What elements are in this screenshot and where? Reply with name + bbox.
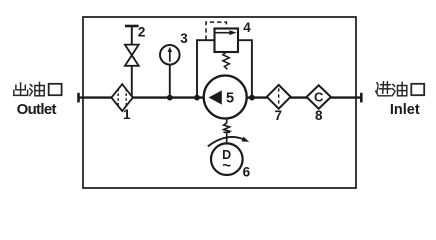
- svg-text:Outlet: Outlet: [17, 101, 57, 118]
- svg-text:~: ~: [222, 158, 231, 175]
- svg-text:1: 1: [123, 107, 131, 122]
- svg-text:7: 7: [275, 108, 283, 123]
- svg-text:6: 6: [243, 164, 251, 179]
- svg-text:4: 4: [243, 20, 251, 35]
- svg-text:5: 5: [226, 91, 234, 107]
- svg-text:Inlet: Inlet: [390, 102, 420, 118]
- svg-text:2: 2: [138, 25, 146, 40]
- svg-text:3: 3: [180, 31, 188, 46]
- svg-text:C: C: [314, 90, 324, 105]
- svg-text:8: 8: [315, 108, 323, 123]
